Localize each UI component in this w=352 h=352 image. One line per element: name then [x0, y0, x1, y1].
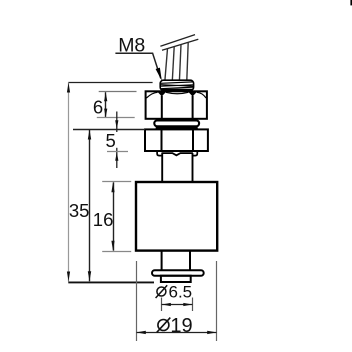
corner artifact	[350, 0, 352, 5]
arrow 6 bottom	[104, 109, 107, 118]
svg-text:5: 5	[106, 130, 116, 151]
dim 6 bottom extension	[97, 117, 135, 119]
dim 5 lower segment	[116, 148, 118, 168]
dimension line 35	[89, 130, 91, 282]
dia 6.5 left extension	[161, 298, 163, 312]
arrow outer top	[67, 83, 70, 93]
washer	[154, 120, 199, 126]
dia 6.5 left arrow	[162, 303, 171, 306]
wire 3	[179, 45, 181, 82]
bottom flange	[152, 270, 204, 275]
dia 19 right arrow	[207, 331, 217, 334]
wire 2	[172, 47, 174, 81]
dim 5 upper segment	[116, 112, 118, 133]
arrow 35 bottom	[88, 271, 91, 281]
dim 6 top extension	[99, 91, 137, 93]
dia 19 dimension line	[137, 332, 217, 334]
arrow 16 top	[111, 182, 114, 192]
bottom reference line	[68, 281, 154, 283]
dim 16 bottom extension	[102, 251, 131, 253]
stem lower left	[161, 251, 163, 271]
extension line top (y=82)	[68, 82, 152, 84]
dia 19 left extension	[136, 261, 138, 341]
label dia 6.5 symbol	[156, 285, 168, 298]
arrow 6 top	[104, 92, 107, 101]
stem shoulder with V notch	[162, 153, 193, 155]
svg-text:19: 19	[170, 315, 192, 337]
arrow 5 bottom	[115, 152, 118, 161]
nut lip right hook	[193, 151, 197, 156]
thread M8	[160, 80, 193, 90]
arrow 5 top	[115, 120, 118, 129]
nut lip left hook	[157, 151, 161, 156]
float body	[136, 182, 217, 251]
stem lower right	[189, 251, 191, 271]
dia 19 right extension	[216, 261, 218, 341]
dim 16 line	[113, 182, 115, 250]
dia 19 left arrow	[136, 331, 146, 334]
dia 6.5 dimension line	[162, 304, 193, 306]
end cap	[161, 276, 191, 282]
cable break line upper	[160, 35, 195, 47]
wire 1	[165, 49, 168, 81]
wire 4	[187, 42, 188, 80]
dia 6.5 right arrow	[183, 303, 192, 306]
dia 6.5 right extension	[192, 298, 194, 312]
extension line nut2 top (y=129)	[73, 129, 145, 131]
label dia 19 symbol	[157, 318, 171, 333]
cable break line lower	[162, 39, 198, 50]
svg-text:6: 6	[93, 96, 103, 117]
hex nut lower	[145, 129, 208, 151]
washer lower dark ring	[156, 127, 198, 130]
arrow 16 bottom	[111, 241, 114, 251]
svg-text:6.5: 6.5	[169, 282, 193, 301]
arrow 35 top	[88, 130, 91, 140]
hex nut upper	[146, 91, 207, 119]
arrow outer bottom	[67, 272, 70, 282]
dim 6 line	[105, 92, 107, 117]
leader arrowhead	[156, 68, 162, 81]
stem upper left	[161, 153, 163, 182]
stem upper right	[192, 153, 194, 182]
leader line M8	[115, 53, 160, 78]
dim 5 bottom extension	[107, 151, 128, 153]
svg-text:35: 35	[69, 200, 90, 221]
svg-text:16: 16	[93, 209, 114, 230]
dimension line outer 35	[68, 83, 70, 282]
dim 16 top extension	[102, 181, 131, 183]
